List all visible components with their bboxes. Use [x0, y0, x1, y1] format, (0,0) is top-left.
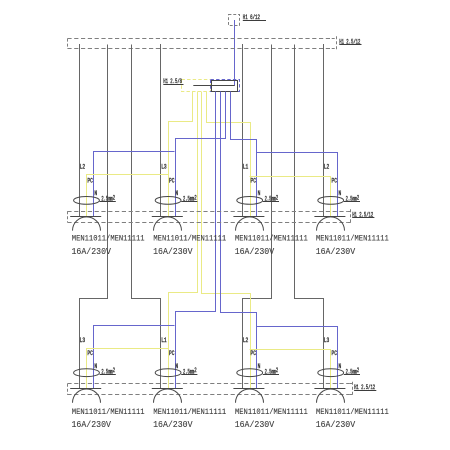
bottom duct end bracket [349, 383, 352, 385]
svg-text:MEN11011/MEN11111: MEN11011/MEN11111 [316, 234, 389, 244]
wire N feed from H1 6/12 [234, 20, 236, 85]
wire L top socket 2 [160, 44, 162, 217]
svg-text:MEN11011/MEN11111: MEN11011/MEN11111 [153, 407, 226, 417]
svg-text:L2: L2 [80, 164, 85, 171]
svg-text:PC: PC [87, 178, 92, 185]
wire PE riser to bottom socket 2 (and 5) [169, 92, 198, 389]
cable ellipse 2.5mm2 socket 4 [318, 197, 344, 205]
svg-text:N: N [175, 191, 178, 198]
svg-text:L2: L2 [324, 164, 329, 171]
svg-text:MEN11011/MEN11111: MEN11011/MEN11111 [72, 234, 145, 244]
cable ellipse 2.5mm2 socket 2 [155, 197, 181, 205]
svg-text:MEN11011/MEN11111: MEN11011/MEN11111 [235, 407, 308, 417]
svg-text:L3: L3 [161, 164, 166, 171]
wire N riser to top socket 2 (and 1) [176, 92, 226, 217]
top duct end bracket [332, 38, 337, 40]
svg-text:PC: PC [87, 350, 92, 357]
wire L bottom socket 8 [295, 45, 324, 389]
svg-text:PC: PC [169, 350, 174, 357]
svg-text:16A/230V: 16A/230V [153, 419, 193, 430]
wire N riser to top socket 3 (and 4) [231, 92, 257, 217]
socket outlet symbol 6 [152, 388, 183, 390]
svg-text:N: N [339, 191, 342, 198]
wire N riser to bottom socket 3 (and 8) [221, 92, 257, 389]
svg-text:MEN11011/MEN11111: MEN11011/MEN11111 [153, 234, 226, 244]
wire PE bottom sockets 7-8 [250, 350, 331, 389]
cable H1 2.5/8 N marker (blue dashed box) [211, 80, 240, 92]
socket outlet symbol 8 [314, 388, 345, 390]
svg-text:16A/230V: 16A/230V [153, 246, 193, 257]
wire PE riser to bottom socket 3 (and 8) [202, 92, 251, 389]
cable duct H1 2.5/12 (top) [67, 38, 331, 40]
svg-text:L1: L1 [243, 164, 248, 171]
svg-text:16A/230V: 16A/230V [235, 419, 275, 430]
wire PE top sockets 1-2 [87, 175, 169, 217]
cable ellipse 2.5mm2 socket 8 [318, 369, 344, 377]
svg-text:PC: PC [332, 350, 337, 357]
wire N top sockets 3-4 [257, 153, 338, 217]
svg-text:L1: L1 [161, 337, 166, 344]
svg-text:16A/230V: 16A/230V [235, 246, 275, 257]
svg-text:16A/230V: 16A/230V [72, 246, 112, 257]
svg-text:PC: PC [332, 178, 337, 185]
wire N riser to bottom socket 2 (and 5) [176, 92, 216, 389]
svg-text:N: N [94, 191, 97, 198]
cable H1 6/12 marker box [229, 15, 240, 26]
svg-text:L3: L3 [324, 337, 329, 344]
cable ellipse 2.5mm2 socket 6 [155, 369, 181, 377]
socket outlet symbol 3 [233, 216, 264, 218]
wire PE top sockets 3-4 [250, 177, 331, 217]
wire N bottom sockets 5-6 [94, 326, 175, 389]
cable duct H1 2.5/12 (middle) [67, 211, 347, 213]
svg-text:L3: L3 [80, 337, 85, 344]
svg-text:PC: PC [251, 350, 256, 357]
svg-text:N: N [258, 191, 261, 198]
svg-text:L2: L2 [243, 337, 248, 344]
svg-text:16A/230V: 16A/230V [316, 419, 356, 430]
svg-text:PC: PC [169, 178, 174, 185]
svg-text:MEN11011/MEN11111: MEN11011/MEN11111 [72, 407, 145, 417]
wire L top socket 1 [79, 44, 81, 217]
cable ellipse 2.5mm2 socket 7 [237, 369, 263, 377]
svg-text:16A/230V: 16A/230V [316, 246, 356, 257]
wire PE riser to top socket 3 (and 4) [207, 92, 251, 217]
middle duct end bracket [348, 211, 351, 213]
socket outlet symbol 2 [152, 216, 183, 218]
wire L top socket 4 [323, 44, 325, 217]
cable ellipse 2.5mm2 socket 1 [74, 197, 100, 205]
svg-text:PC: PC [251, 178, 256, 185]
wire N bottom sockets 7-8 [257, 327, 338, 389]
cable ellipse 2.5mm2 socket 3 [237, 197, 263, 205]
socket outlet symbol 5 [70, 388, 101, 390]
wire L bottom socket 5 [80, 45, 108, 389]
wire PE riser to top socket 2 (and 1) [169, 92, 193, 217]
socket outlet symbol 7 [233, 388, 264, 390]
wire L bottom socket 6 [132, 45, 161, 389]
wire N top sockets 1-2 [94, 152, 175, 217]
svg-text:16A/230V: 16A/230V [72, 419, 112, 430]
wire L bottom socket 7 [243, 45, 272, 389]
cable H1 2.5/8 box [212, 81, 238, 92]
svg-text:MEN11011/MEN11111: MEN11011/MEN11111 [316, 407, 389, 417]
socket outlet symbol 1 [70, 216, 101, 218]
wire L top socket 3 [242, 44, 244, 217]
cable ellipse 2.5mm2 socket 5 [74, 369, 100, 377]
svg-text:MEN11011/MEN11111: MEN11011/MEN11111 [235, 234, 308, 244]
socket outlet symbol 4 [314, 216, 345, 218]
wire PE bottom sockets 5-6 [87, 349, 169, 389]
cable H1 2.5/8 PE marker (yellow dashed box) [182, 80, 211, 92]
cable duct H1 2.5/12 (bottom) [67, 383, 349, 385]
